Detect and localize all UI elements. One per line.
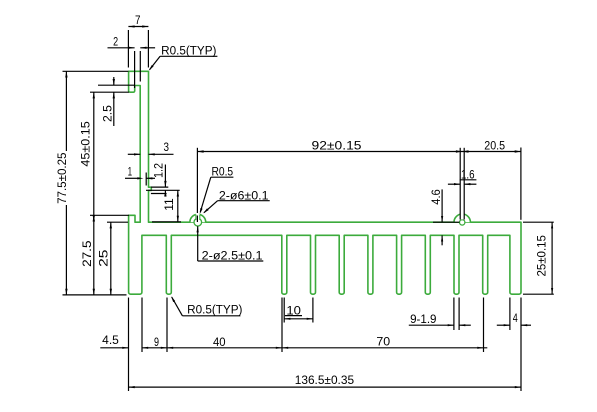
dimension 1.2 (tab thickness) [146, 163, 180, 197]
leader R0.5 at hole 1 [200, 167, 234, 215]
svg-text:1.2: 1.2 [154, 163, 166, 178]
dimensions 4.5, 9, 40, 70 (bottom) [100, 298, 521, 392]
dimension 1 (tab offset) [125, 167, 155, 186]
svg-text:20.5: 20.5 [484, 141, 505, 153]
dimension 2 (hook slot width) [108, 36, 156, 88]
svg-text:4.6: 4.6 [431, 189, 443, 205]
slot opening of hole 1 [196, 211, 200, 221]
solder groove boss dome at hole 2 [454, 214, 470, 222]
dimension 10 (fin pitch) [284, 298, 313, 323]
svg-text:1.6: 1.6 [461, 169, 475, 181]
svg-text:11: 11 [164, 198, 176, 211]
svg-text:27.5: 27.5 [82, 241, 94, 267]
svg-text:25±0.15: 25±0.15 [537, 235, 549, 276]
svg-text:2.5: 2.5 [102, 105, 114, 122]
svg-text:2-ø2.5±0.1: 2-ø2.5±0.1 [202, 251, 263, 263]
svg-text:92±0.15: 92±0.15 [312, 141, 362, 153]
heatsink extruded profile outline [129, 71, 521, 294]
svg-text:77.5±0.25: 77.5±0.25 [57, 153, 69, 204]
svg-text:9: 9 [154, 337, 159, 349]
svg-text:25: 25 [98, 250, 110, 267]
solder groove boss dome at hole 1 [190, 214, 206, 222]
svg-text:40: 40 [213, 337, 226, 349]
svg-text:9-1.9: 9-1.9 [410, 314, 436, 326]
svg-text:4.5: 4.5 [102, 335, 119, 347]
dimensions 27.5 and 25 (left) [82, 215, 129, 295]
dimension 4.6 (plate thickness) [431, 189, 460, 245]
dimension 4 (right foot width) [497, 298, 531, 331]
svg-text:10: 10 [286, 305, 301, 317]
svg-text:2: 2 [113, 36, 118, 48]
svg-text:R0.5(TYP): R0.5(TYP) [161, 46, 216, 58]
dimension 2.5 (hook depth) [102, 77, 115, 126]
hole 1 circle o2.5 [194, 218, 202, 226]
svg-text:R0.5(TYP): R0.5(TYP) [187, 305, 242, 317]
svg-text:45±0.15: 45±0.15 [80, 121, 92, 166]
leader 2-ø2.5±0.1 [197, 226, 264, 262]
hole 2 circle o2.5 [460, 220, 465, 225]
leader R0.5(TYP) at flange corner [149, 46, 218, 71]
slot opening of hole 2 [460, 210, 464, 220]
dimension 9-1.9 (fin thickness) [409, 298, 471, 331]
dimension 11 [152, 190, 181, 222]
dimensions 92±0.15 and 20.5 [197, 141, 521, 222]
dimension 25±0.15 (fin height right) [523, 222, 554, 294]
svg-text:136.5±0.35: 136.5±0.35 [295, 375, 354, 387]
dimension 1.6 (slot width) [448, 169, 477, 185]
svg-text:R0.5: R0.5 [211, 167, 233, 179]
leader 2-ø6±0.1 [203, 191, 270, 214]
dimension 3 (wall thickness) [128, 142, 174, 156]
dimension 77.5±0.25 (overall height) [57, 71, 128, 295]
dimension 45±0.15 [80, 85, 134, 221]
svg-text:3: 3 [164, 142, 170, 154]
dimension 7 (flange width) [128, 15, 148, 67]
svg-text:4: 4 [513, 313, 518, 325]
svg-text:1: 1 [128, 167, 133, 179]
svg-text:7: 7 [135, 15, 141, 27]
dimension 136.5±0.35 (overall width) [129, 375, 522, 388]
leader R0.5(TYP) at fin root [171, 296, 243, 316]
svg-text:70: 70 [376, 336, 390, 348]
svg-text:2-ø6±0.1: 2-ø6±0.1 [219, 191, 269, 203]
